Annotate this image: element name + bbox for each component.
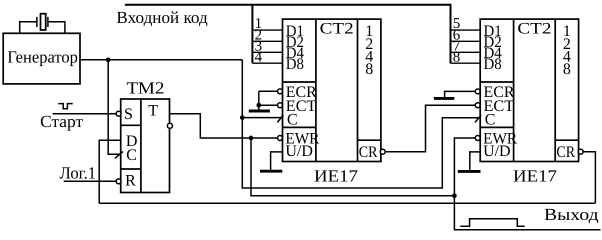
svg-text:U/D: U/D — [285, 143, 313, 160]
svg-text:4: 4 — [255, 50, 263, 66]
svg-text:Выход: Выход — [544, 205, 599, 224]
ground: ECR1/ECT1 tie — [259, 91, 278, 110]
pin bubble R — [116, 179, 121, 184]
svg-text:T: T — [148, 102, 158, 119]
svg-text:CR: CR — [556, 144, 575, 161]
counter DD2 IE17 body — [283, 19, 381, 161]
svg-text:CR: CR — [359, 144, 378, 161]
svg-text:Старт: Старт — [40, 112, 84, 131]
pin numbers 5-8 — [453, 16, 461, 65]
wire: clock to counter2 C input — [242, 60, 480, 188]
wire: borrow line CR2 to D — [99, 202, 595, 204]
svg-text:C: C — [287, 111, 298, 128]
svg-text:8: 8 — [563, 61, 571, 78]
wire: up to EWR2 input — [454, 138, 480, 196]
pin bubble S — [116, 111, 121, 116]
wire: TM2 Q output to EWR1 — [170, 114, 279, 138]
crystal ZQ1 — [20, 14, 65, 34]
start pulse symbol — [58, 104, 72, 109]
svg-text:Генератор: Генератор — [7, 48, 78, 67]
pin numbers 1-4 — [255, 16, 263, 65]
counter DD3 C dynamic marker — [475, 115, 481, 122]
pin bubble ECT2 — [475, 103, 480, 108]
wire: Q to EWR2 and output — [251, 138, 454, 196]
svg-text:C: C — [126, 147, 137, 164]
wire: Log.1 to R input — [64, 180, 117, 182]
counter DD2 C dynamic marker — [277, 115, 283, 122]
wire: clock to TM2 C input — [108, 60, 121, 155]
ground bar ECR1/ECT1 — [249, 110, 270, 113]
output pulse symbol — [460, 219, 524, 227]
svg-text:ТМ2: ТМ2 — [127, 78, 165, 97]
wire: input bus drop to counter1 pins — [251, 5, 253, 63]
wire: CR1 to ECT2 — [381, 105, 480, 152]
svg-text:CT2: CT2 — [517, 20, 551, 37]
svg-text:CT2: CT2 — [320, 20, 354, 37]
flip-flop DD1 C dynamic marker — [115, 152, 123, 159]
counter DD3 IE17 body — [480, 19, 578, 161]
junction: EWR2/output branch — [452, 193, 457, 198]
generator G1 — [3, 33, 80, 84]
ground bar U/D2 — [458, 170, 481, 173]
svg-text:8: 8 — [365, 61, 373, 78]
pin bubble CR2 — [578, 149, 583, 154]
pin bubble EWR1 — [278, 136, 283, 141]
pin bubble EWR2 — [475, 136, 480, 141]
pin bubble CR1 — [380, 149, 385, 154]
pin bubble ECR2 — [475, 89, 480, 94]
pin bubble ECR1 — [278, 89, 283, 94]
svg-text:ИЕ17: ИЕ17 — [314, 166, 359, 185]
ground: U/D2 — [470, 152, 480, 170]
pin bubble ECT1 — [278, 103, 283, 108]
svg-text:U/D: U/D — [483, 143, 511, 160]
ground bar ECR2 — [434, 97, 454, 100]
svg-text:Входной код: Входной код — [116, 8, 208, 27]
junction: generator output split — [106, 57, 111, 62]
svg-text:8: 8 — [453, 50, 461, 66]
ground: U/D1 — [271, 152, 283, 170]
wire: generator output — [80, 59, 242, 61]
svg-text:Лог.1: Лог.1 — [60, 164, 97, 183]
flip-flop DD1 body — [121, 99, 170, 193]
junction: C1 branch — [240, 115, 245, 120]
wire: TM2 D input from borrow line — [99, 140, 121, 203]
counter DD2 labels — [285, 20, 377, 161]
ground: ECR2 — [445, 91, 478, 97]
wire: CR2 to borrow line — [579, 152, 596, 204]
pin bubble TM2 inverse output — [167, 123, 172, 128]
svg-text:D8: D8 — [484, 56, 502, 73]
svg-text:ИЕ17: ИЕ17 — [513, 166, 558, 185]
svg-text:C: C — [485, 111, 496, 128]
svg-text:D8: D8 — [286, 56, 304, 73]
svg-text:S: S — [124, 106, 133, 123]
junction: Q output branch — [249, 136, 254, 141]
ground bar U/D1 — [260, 170, 282, 173]
svg-text:R: R — [125, 172, 136, 189]
wire: counter1 pin stubs — [252, 30, 282, 63]
wire: input code bus top line — [125, 5, 451, 63]
wire: down to output line — [454, 196, 600, 230]
junction: ECR1/ECT1 — [256, 103, 261, 108]
counter DD3 labels — [483, 20, 575, 161]
wire: clock to counter1 C input — [242, 117, 282, 119]
wire: Start to S input — [53, 113, 117, 115]
wire: counter2 pin stubs — [451, 30, 481, 63]
